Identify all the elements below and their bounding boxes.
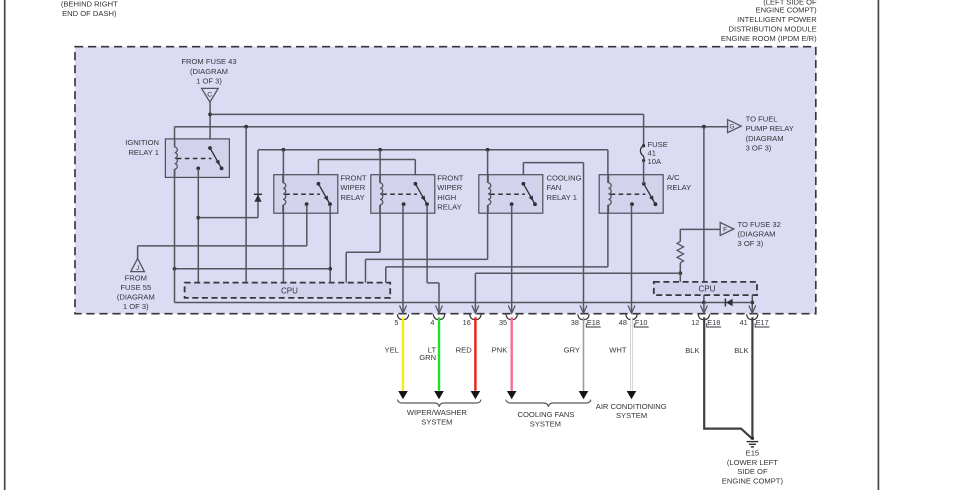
svg-text:A/C: A/C xyxy=(667,173,680,182)
svg-text:38: 38 xyxy=(571,318,579,327)
diode D1 (to line C) xyxy=(254,194,262,201)
wire: CPU to pin 41 xyxy=(751,295,753,313)
svg-text:INTELLIGENT POWER: INTELLIGENT POWER xyxy=(737,15,817,24)
svg-text:RELAY: RELAY xyxy=(437,202,461,211)
caption LT GRN xyxy=(419,345,436,362)
svg-text:F10: F10 xyxy=(635,318,648,327)
svg-text:1 OF 3): 1 OF 3) xyxy=(123,302,149,311)
svg-text:C: C xyxy=(207,92,212,99)
wire: line B branch down to CPU xyxy=(245,127,247,283)
svg-text:E17: E17 xyxy=(756,318,769,327)
wire: ground bus bottom horizontal to pin 12 xyxy=(175,302,704,304)
svg-text:RELAY: RELAY xyxy=(340,193,364,202)
wire: diode vertical xyxy=(257,150,259,218)
svg-text:CPU: CPU xyxy=(281,287,298,296)
wire: line A to fuse 41 xyxy=(210,113,643,115)
node: front wiper relay contact / ground link xyxy=(328,267,332,271)
IPDM E/R module dashed box xyxy=(75,47,816,314)
pin 16 arrow and connector xyxy=(463,305,481,327)
wire: front wiper relay coil return to CPU xyxy=(282,150,284,183)
node: line B to CPU drop xyxy=(244,125,248,129)
svg-text:BLK: BLK xyxy=(685,346,699,355)
caption FUSE 41 10A xyxy=(648,140,668,166)
svg-text:PUMP RELAY: PUMP RELAY xyxy=(746,124,794,133)
wire: diode branch horizontal xyxy=(198,217,258,219)
wire: front wiper high relay contact to pin 5 xyxy=(402,205,404,313)
svg-text:GRY: GRY xyxy=(564,345,580,354)
caption COOLING FAN RELAY 1 xyxy=(547,174,582,202)
resistor (CPU pull-up) xyxy=(677,229,683,273)
svg-text:E15: E15 xyxy=(746,449,760,458)
svg-text:FRONT: FRONT xyxy=(340,174,367,183)
wire: front wiper relay contact drop to line J xyxy=(306,204,308,246)
wire: resistor to F triangle xyxy=(680,228,720,230)
svg-text:FRONT: FRONT xyxy=(437,174,464,183)
svg-text:ENGINE COMPT): ENGINE COMPT) xyxy=(722,477,784,486)
svg-text:DISTRIBUTION MODULE: DISTRIBUTION MODULE xyxy=(729,25,817,34)
svg-text:SYSTEM: SYSTEM xyxy=(421,418,452,427)
wire PNK pin 35 xyxy=(511,317,513,391)
wire: ignition coil top riser xyxy=(174,127,176,147)
svg-text:E18: E18 xyxy=(587,318,600,327)
svg-text:12: 12 xyxy=(691,318,699,327)
connector triangle G to fuel pump relay xyxy=(728,120,742,133)
svg-text:RELAY 1: RELAY 1 xyxy=(547,193,578,202)
wire: cooling fan relay contact to pin 35 xyxy=(511,205,513,313)
svg-text:IGNITION: IGNITION xyxy=(125,138,159,147)
wire: line B ignition coil top to G triangle xyxy=(175,126,728,128)
pin 38 arrow and connector xyxy=(571,305,601,327)
caption TO FUEL PUMP RELAY (DIAGRAM 3 OF 3) xyxy=(746,115,794,153)
wire BLK pin 41 to ground xyxy=(751,317,753,437)
svg-text:(DIAGRAM: (DIAGRAM xyxy=(746,134,784,143)
caption IGNITION RELAY 1 xyxy=(125,138,159,157)
node: line C front wiper relay coil xyxy=(282,148,286,152)
svg-text:FAN: FAN xyxy=(547,183,562,192)
wire: front wiper high relay common riser xyxy=(414,160,416,184)
node: line C front wiper high relay coil xyxy=(378,148,382,152)
wire: A/C relay coil return jog to CPU xyxy=(607,150,609,183)
svg-text:3 OF 3): 3 OF 3) xyxy=(738,239,764,248)
wire: front wiper relay NO contact drop to ground bus tap xyxy=(329,205,331,283)
svg-text:CPU: CPU xyxy=(698,285,715,294)
CPU box right xyxy=(654,282,757,295)
svg-text:41: 41 xyxy=(740,318,748,327)
wire: cooling fan common bridge xyxy=(523,162,583,164)
wire GRY pin 38 xyxy=(583,317,585,391)
svg-text:G: G xyxy=(729,124,734,131)
wire: line D wiper relay commons bridge xyxy=(318,159,415,161)
svg-text:(DIAGRAM: (DIAGRAM xyxy=(738,230,776,239)
svg-text:GRN: GRN xyxy=(419,353,436,362)
svg-text:RED: RED xyxy=(456,345,473,354)
wire: front wiper high relay NO contact jog to pin 4 xyxy=(426,205,428,283)
node: diode D2 / pin 41 xyxy=(750,301,754,305)
caption FROM FUSE 55 (DIAGRAM 1 OF 3) xyxy=(117,273,155,311)
pin 5 arrow and connector xyxy=(394,305,408,327)
relay IGNITION RELAY 1 xyxy=(165,139,229,178)
caption (BEHIND RIGHT END OF DASH) xyxy=(61,0,118,18)
svg-text:ENGINE COMPT): ENGINE COMPT) xyxy=(756,5,818,14)
wire: line C relay coil feed bus xyxy=(258,149,608,151)
wire: pin 16 drop xyxy=(474,273,476,313)
caption FRONT WIPER HIGH RELAY xyxy=(437,174,464,212)
pin 4 arrow and connector xyxy=(430,305,444,327)
wire: cooling fan relay common riser xyxy=(522,163,524,184)
svg-text:WIPER: WIPER xyxy=(340,183,365,192)
CPU box left xyxy=(185,283,391,298)
wire: resistor junction into CPU xyxy=(679,273,681,282)
node: diode branch junction xyxy=(196,216,200,220)
svg-text:(DIAGRAM: (DIAGRAM xyxy=(190,67,228,76)
svg-text:PNK: PNK xyxy=(492,345,508,354)
node: ignition coil return / ground link xyxy=(173,267,177,271)
svg-text:10A: 10A xyxy=(648,157,662,166)
wire RED pin 16 xyxy=(474,317,476,391)
svg-text:SYSTEM: SYSTEM xyxy=(530,419,561,428)
connector triangle F to fuse 32 xyxy=(720,222,734,235)
node: line B fuel pump branch xyxy=(702,125,706,129)
wire: cooling fan relay coil return jog to CPU xyxy=(487,150,489,183)
svg-text:E18: E18 xyxy=(707,318,720,327)
relay FRONT WIPER RELAY xyxy=(274,175,338,214)
node: resistor / pin 16 line junction xyxy=(678,271,682,275)
caption AIR CONDITIONING SYSTEM xyxy=(596,402,667,420)
svg-text:TO FUEL: TO FUEL xyxy=(746,115,778,124)
caption FRONT WIPER RELAY xyxy=(340,174,367,202)
wire: fuse 41 feed drop xyxy=(643,114,645,146)
relay COOLING FAN RELAY 1 xyxy=(479,175,543,214)
wire LT GRN pin 4 xyxy=(438,317,440,391)
svg-text:END OF DASH): END OF DASH) xyxy=(62,9,117,18)
page frame line left xyxy=(4,0,6,490)
svg-text:RELAY: RELAY xyxy=(667,183,691,192)
svg-text:WIPER: WIPER xyxy=(437,183,462,192)
svg-text:F: F xyxy=(723,227,727,234)
svg-text:(DIAGRAM: (DIAGRAM xyxy=(117,293,155,302)
wire YEL pin 5 xyxy=(402,317,404,391)
relay A/C RELAY xyxy=(599,175,663,214)
connector triangle C from fuse 43 xyxy=(202,88,219,102)
brace wiper/washer system xyxy=(397,400,481,407)
wire: A/C relay contact to pin 48 xyxy=(631,205,633,313)
svg-text:SIDE OF: SIDE OF xyxy=(737,467,768,476)
node: junction line A xyxy=(208,113,212,117)
wire: fuel pump branch down to pin 12 xyxy=(703,127,705,303)
svg-text:FROM FUSE 43: FROM FUSE 43 xyxy=(181,57,236,66)
caption FROM FUSE 43 (DIAGRAM 1 OF 3) xyxy=(181,57,236,85)
caption IPDM E/R title top right xyxy=(721,0,817,43)
wire: front wiper relay common riser xyxy=(317,160,319,184)
svg-text:WHT: WHT xyxy=(609,345,627,354)
svg-text:3 OF 3): 3 OF 3) xyxy=(746,143,772,152)
wire: fuse 41 to A/C relay common xyxy=(643,161,645,184)
svg-text:SYSTEM: SYSTEM xyxy=(616,411,647,420)
caption A/C RELAY xyxy=(667,173,691,192)
svg-text:FROM: FROM xyxy=(125,273,147,282)
svg-text:AIR CONDITIONING: AIR CONDITIONING xyxy=(596,402,667,411)
node: line C cooling fan relay coil xyxy=(486,148,490,152)
caption COOLING FANS SYSTEM xyxy=(518,410,575,428)
page frame line right xyxy=(877,0,879,490)
wire: line J fuse 55 feed to front wiper relay contact xyxy=(138,245,307,247)
pin 48 arrow and connector xyxy=(619,305,649,327)
wire: pin 12 stub xyxy=(703,303,705,314)
svg-text:WIPER/WASHER: WIPER/WASHER xyxy=(407,408,468,417)
wire: ignition relay contact output drop to CPU xyxy=(197,168,199,282)
wire: J triangle riser xyxy=(137,246,139,259)
fuse FUSE 41 10A xyxy=(640,144,645,162)
svg-text:RELAY 1: RELAY 1 xyxy=(128,148,159,157)
svg-text:5: 5 xyxy=(394,318,398,327)
wire: pin 38 drop from cooling fan relay common xyxy=(583,163,585,314)
wire: ignition coil return down xyxy=(174,169,176,302)
connector triangle J from fuse 55 xyxy=(131,258,145,272)
brace cooling fans system xyxy=(506,400,591,407)
ground symbol E15 xyxy=(747,437,759,447)
svg-text:35: 35 xyxy=(499,318,507,327)
caption WIPER/WASHER SYSTEM xyxy=(407,408,468,427)
svg-text:4: 4 xyxy=(430,318,434,327)
pin 12 arrow and connector xyxy=(691,305,721,327)
wire BLK pin 12 to ground xyxy=(704,317,752,438)
svg-text:(LOWER LEFT: (LOWER LEFT xyxy=(727,458,778,467)
pin 41 arrow and connector xyxy=(740,305,770,327)
wire: diode D2 link xyxy=(704,302,752,304)
svg-text:YEL: YEL xyxy=(385,345,399,354)
svg-text:16: 16 xyxy=(463,318,471,327)
svg-text:(BEHIND RIGHT: (BEHIND RIGHT xyxy=(61,0,118,8)
relay FRONT WIPER HIGH RELAY xyxy=(371,175,435,214)
svg-text:COOLING: COOLING xyxy=(547,174,582,183)
svg-text:HIGH: HIGH xyxy=(437,193,456,202)
svg-text:1 OF 3): 1 OF 3) xyxy=(196,76,222,85)
pin 35 arrow and connector xyxy=(499,305,517,327)
svg-text:ENGINE ROOM (IPDM E/R): ENGINE ROOM (IPDM E/R) xyxy=(721,34,817,43)
svg-text:BLK: BLK xyxy=(734,346,748,355)
wire: front wiper high relay coil return jog to CPU xyxy=(379,150,381,183)
svg-text:48: 48 xyxy=(619,318,627,327)
wire: pin 16 line from resistor junction xyxy=(475,272,680,274)
svg-text:J: J xyxy=(136,265,139,272)
caption E15 (LOWER LEFT SIDE OF ENGINE COMPT) xyxy=(722,449,784,486)
wire WHT pin 48 xyxy=(630,317,633,391)
node: ground bus / pin 12 xyxy=(702,301,706,305)
wire: ground link horizontal xyxy=(175,268,331,270)
svg-text:TO FUSE 32: TO FUSE 32 xyxy=(738,220,781,229)
caption TO FUSE 32 (DIAGRAM 3 OF 3) xyxy=(738,220,781,248)
diode D2 (CPU ground sense) xyxy=(725,299,732,307)
wire: triangle C to ignition relay switch common xyxy=(209,102,211,148)
svg-text:FUSE 55: FUSE 55 xyxy=(120,283,151,292)
svg-text:COOLING FANS: COOLING FANS xyxy=(518,410,575,419)
